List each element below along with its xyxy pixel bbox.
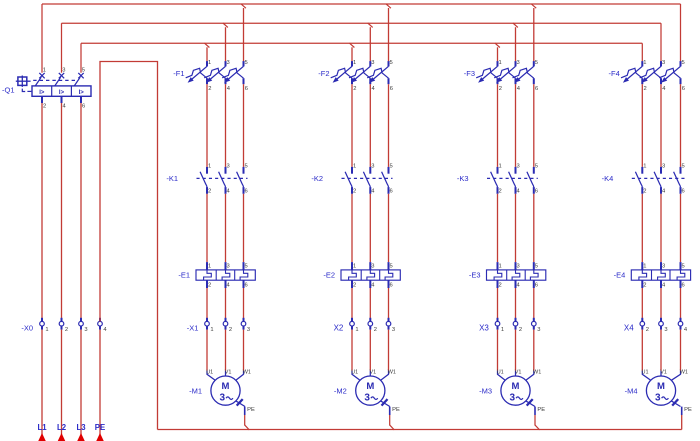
K2 pin 5 <box>390 164 393 170</box>
svg-text:-M2: -M2 <box>334 386 347 395</box>
supply arrow L1 <box>38 433 46 441</box>
wire K2:4 to E2:3 <box>369 194 371 262</box>
svg-text:2: 2 <box>644 86 647 92</box>
wire E1:4 to X1:2 <box>225 288 227 322</box>
svg-text:-E4: -E4 <box>614 271 626 280</box>
M4 lead U1 <box>642 371 650 381</box>
svg-text:2: 2 <box>353 188 356 194</box>
svg-text:2: 2 <box>499 283 502 289</box>
label X3 <box>479 324 489 333</box>
M1 pin V1 <box>225 369 232 375</box>
motor M1 <box>211 376 240 405</box>
svg-text:V1: V1 <box>225 369 232 375</box>
terminal X3:3 <box>532 318 537 330</box>
svg-text:M: M <box>366 381 374 392</box>
Q1 mechanical link (dashed) <box>33 79 76 81</box>
svg-text:3: 3 <box>537 327 540 333</box>
K1 pole contact 5-6 <box>237 167 244 194</box>
svg-text:3: 3 <box>371 263 374 269</box>
svg-text:1: 1 <box>210 327 213 333</box>
F2 pin 4 <box>372 86 376 92</box>
Q1 terminal stub 6 <box>80 96 82 103</box>
X2 pin 2 <box>374 327 377 333</box>
wire bus L2 <box>62 23 662 72</box>
E1 pin 6 <box>245 283 248 289</box>
svg-text:2: 2 <box>353 283 356 289</box>
svg-text:1: 1 <box>353 60 356 66</box>
terminal X2:2 <box>368 318 373 330</box>
wire L2 tap junction at x=370.3 <box>368 23 373 61</box>
svg-text:-X1: -X1 <box>187 324 199 333</box>
K3 pin 3 <box>517 164 520 170</box>
wire K4:6 to E4:5 <box>680 194 682 262</box>
Q1 pin 6 <box>82 103 85 109</box>
M3 lead U1 <box>498 371 506 381</box>
svg-text:2: 2 <box>643 188 646 194</box>
wire E2:4 to X2:2 <box>369 288 371 322</box>
K2 mechanical link (dashed) <box>342 177 393 179</box>
wire F2:2 to K2:1 <box>351 84 353 167</box>
wire X4:4 to M4 <box>680 330 682 371</box>
svg-text:PE: PE <box>684 407 692 413</box>
F3 pin 2 <box>499 86 502 92</box>
svg-text:1: 1 <box>501 327 504 333</box>
wire X2:3 to M2 <box>388 330 390 371</box>
K1 mechanical link (dashed) <box>197 177 248 179</box>
wire X4:3 to M4 <box>660 330 662 371</box>
K3 pole contact 5-6 <box>527 167 534 194</box>
wire L3 tap junction at x=352 <box>349 43 354 61</box>
label -E4 <box>614 271 626 280</box>
E1 pin 4 <box>227 283 231 289</box>
svg-text:1: 1 <box>355 327 358 333</box>
F2 pole 3-4 breaker contact <box>349 61 370 84</box>
wire K4:2 to E4:1 <box>641 194 643 262</box>
K4 pole contact 3-4 <box>654 167 661 194</box>
svg-text:3: 3 <box>364 393 370 404</box>
svg-text:6: 6 <box>682 86 685 92</box>
svg-text:W1: W1 <box>533 369 541 375</box>
svg-text:M: M <box>512 381 520 392</box>
E3 pin 2 <box>499 283 502 289</box>
svg-text:-M4: -M4 <box>625 386 638 395</box>
K1 pole contact 1-2 <box>200 167 207 194</box>
svg-text:2: 2 <box>374 327 377 333</box>
wire X1:2 to M1 <box>225 330 227 371</box>
svg-text:M: M <box>657 381 665 392</box>
K4 mechanical link (dashed) <box>632 177 685 179</box>
Q1 terminal stub 4 <box>61 96 63 103</box>
E2 pin 4 <box>371 283 375 289</box>
K2 pin 4 <box>371 188 375 194</box>
label -X1 <box>187 324 199 333</box>
wire E4:4 to X4:2 <box>660 288 662 322</box>
svg-text:5: 5 <box>535 164 538 170</box>
wire Q1:6 to X0:3 <box>80 103 82 322</box>
wire F4:6 to K4:5 <box>680 84 682 167</box>
wire E2:2 to X2:1 <box>351 288 353 322</box>
E4 heater element 5-6 <box>677 262 685 288</box>
svg-text:1: 1 <box>643 60 646 66</box>
wire bus L1 <box>42 4 681 73</box>
wire F4:2 to K4:1 <box>641 84 643 167</box>
motor M4 <box>646 376 675 405</box>
label -E1 <box>178 271 190 280</box>
svg-text:6: 6 <box>390 283 393 289</box>
E4 heater element 3-4 <box>658 262 666 288</box>
svg-text:2: 2 <box>643 283 646 289</box>
supply arrow L3 <box>77 433 85 441</box>
label -E2 <box>323 271 335 280</box>
svg-text:3: 3 <box>371 60 374 66</box>
Q1 manual operator <box>16 76 31 87</box>
X1 pin 3 <box>247 327 250 333</box>
svg-text:3: 3 <box>662 60 665 66</box>
wire K1:4 to E1:3 <box>225 194 227 262</box>
wire bus L3 <box>81 43 642 72</box>
wire K1:2 to E1:1 <box>206 194 208 262</box>
terminal X4:4 <box>678 318 683 330</box>
terminal X3:1 <box>495 318 500 330</box>
svg-text:3: 3 <box>664 327 667 333</box>
Q1 terminal stub 2 <box>41 96 43 103</box>
K2 pole contact 1-2 <box>345 167 352 194</box>
F3 pin 6 <box>535 86 538 92</box>
wire L1 tap junction at x=533.8 <box>531 4 536 62</box>
terminal X0:1 <box>40 318 45 330</box>
wire X0:3 to supply L3 <box>80 330 82 441</box>
wire F3:2 to K3:1 <box>497 84 499 167</box>
Q1 pin 1 <box>43 67 46 73</box>
wire Q1:4 to X0:2 <box>61 103 63 322</box>
svg-text:-M1: -M1 <box>189 386 202 395</box>
E4 pin 6 <box>682 283 685 289</box>
E1 thermal overload body <box>196 270 255 280</box>
wire K2:2 to E2:1 <box>351 194 353 262</box>
F4 pin 4 <box>662 86 666 92</box>
svg-text:2: 2 <box>353 86 356 92</box>
svg-text:-F1: -F1 <box>173 69 184 78</box>
svg-text:6: 6 <box>535 283 538 289</box>
wire K3:2 to E3:1 <box>497 194 499 262</box>
K3 pole contact 3-4 <box>509 167 516 194</box>
svg-text:5: 5 <box>390 164 393 170</box>
X1 pin 2 <box>229 327 232 333</box>
K3 pole contact 1-2 <box>491 167 498 194</box>
F1 pole 1-2 breaker contact <box>186 61 207 84</box>
label -F4 <box>609 69 620 78</box>
M2 pin U1 <box>351 369 358 375</box>
wire L2 tap junction at x=515.5 <box>513 23 518 61</box>
F4 pin 5 <box>682 60 685 66</box>
E3 pin 1 <box>499 263 502 269</box>
svg-text:3: 3 <box>84 327 87 333</box>
F3 pole 3-4 breaker contact <box>494 61 515 84</box>
svg-text:2: 2 <box>229 327 232 333</box>
E4 pin 4 <box>662 283 666 289</box>
Q1 pin 5 <box>82 67 85 73</box>
F2 pin 3 <box>371 60 374 66</box>
net label L2 <box>57 423 67 432</box>
svg-text:3: 3 <box>517 164 520 170</box>
X0 pin 3 <box>84 327 87 333</box>
E2 pin 5 <box>390 263 393 269</box>
F1 pin 4 <box>227 86 231 92</box>
label -M1 <box>189 386 202 395</box>
wire L2 tap junction at x=225.5 <box>223 23 228 61</box>
M1 lead W1 <box>236 371 244 381</box>
E3 pin 3 <box>517 263 520 269</box>
wire M2 PE to PE rail junction <box>390 415 395 430</box>
wire F1:4 to K1:3 <box>225 84 227 167</box>
Q1 pin 4 <box>63 103 67 109</box>
svg-text:6: 6 <box>245 188 248 194</box>
F4 pin 6 <box>682 86 685 92</box>
supply arrow L2 <box>58 433 66 441</box>
M3 PE label <box>537 407 545 413</box>
wire K3:6 to E3:5 <box>533 194 535 262</box>
K2 pole contact 5-6 <box>382 167 389 194</box>
M1 lead V1 <box>225 371 227 376</box>
svg-text:L2: L2 <box>57 423 67 432</box>
label -Q1 <box>2 86 15 95</box>
E2 pin 1 <box>353 263 356 269</box>
svg-text:1: 1 <box>643 164 646 170</box>
Q1 pin 2 <box>43 103 46 109</box>
wire E3:6 to X3:3 <box>533 288 535 322</box>
wire PE riser <box>100 62 158 430</box>
svg-text:6: 6 <box>390 188 393 194</box>
Q1 pole contact 1-2 <box>35 73 45 86</box>
svg-text:-K3: -K3 <box>457 174 469 183</box>
Q1 overload release box I> <box>32 86 91 96</box>
E4 pin 3 <box>662 263 665 269</box>
net label L1 <box>37 423 47 432</box>
F3 pole 1-2 breaker contact <box>476 61 497 84</box>
svg-text:PE: PE <box>95 423 105 432</box>
svg-text:2: 2 <box>499 188 502 194</box>
label X4 <box>624 324 634 333</box>
K3 pin 2 <box>499 188 502 194</box>
wire X3:1 to M3 <box>497 330 499 371</box>
svg-text:1: 1 <box>208 60 211 66</box>
K2 pin 1 <box>353 164 356 170</box>
svg-text:5: 5 <box>82 67 85 73</box>
svg-text:-F2: -F2 <box>318 69 329 78</box>
svg-text:5: 5 <box>682 164 685 170</box>
svg-text:3: 3 <box>510 393 516 404</box>
svg-text:PE: PE <box>247 407 255 413</box>
label -F1 <box>173 69 184 78</box>
label -F3 <box>464 69 475 78</box>
M4 PE label <box>684 407 692 413</box>
E3 pin 4 <box>517 283 521 289</box>
svg-text:-E2: -E2 <box>323 271 335 280</box>
F4 pole 1-2 breaker contact <box>621 61 642 84</box>
terminal X4:3 <box>659 318 664 330</box>
E2 heater element 5-6 <box>385 262 393 288</box>
svg-text:I>: I> <box>39 90 45 96</box>
wire K2:6 to E2:5 <box>388 194 390 262</box>
wire X2:1 to M2 <box>351 330 353 371</box>
svg-text:L1: L1 <box>37 423 47 432</box>
F4 pole 3-4 breaker contact <box>640 61 661 84</box>
wire X1:3 to M1 <box>243 330 245 371</box>
E1 heater element 1-2 <box>204 262 212 288</box>
wire M1 PE to PE rail junction <box>245 415 250 430</box>
svg-text:-X0: -X0 <box>21 323 33 332</box>
svg-text:U1: U1 <box>642 369 649 375</box>
E3 heater element 3-4 <box>512 262 520 288</box>
K3 mechanical link (dashed) <box>487 177 538 179</box>
svg-text:5: 5 <box>682 60 685 66</box>
E4 pin 2 <box>643 283 646 289</box>
svg-text:2: 2 <box>519 327 522 333</box>
svg-text:1: 1 <box>353 164 356 170</box>
M3 lead W1 <box>526 371 534 381</box>
label X2 <box>334 324 344 333</box>
X0 pin 2 <box>65 327 68 333</box>
svg-text:3: 3 <box>517 60 520 66</box>
M1 pin W1 <box>243 369 251 375</box>
M4 pin V1 <box>660 369 667 375</box>
K3 pin 4 <box>517 188 521 194</box>
wire Q1:2 to X0:1 <box>41 103 43 322</box>
terminal X2:3 <box>386 318 391 330</box>
svg-text:U1: U1 <box>497 369 504 375</box>
Q1 trip linkage <box>22 89 31 92</box>
K2 pin 3 <box>371 164 374 170</box>
net label PE <box>95 423 105 432</box>
svg-text:2: 2 <box>208 188 211 194</box>
M2 PE brush connection <box>381 399 390 415</box>
X4 pin 3 <box>664 327 667 333</box>
svg-text:6: 6 <box>245 86 248 92</box>
M2 lead V1 <box>369 371 371 376</box>
K4 pin 2 <box>643 188 646 194</box>
K1 pin 3 <box>227 164 230 170</box>
wire X0:1 to supply L1 <box>41 330 43 441</box>
E2 pin 3 <box>371 263 374 269</box>
terminal X3:2 <box>513 318 518 330</box>
svg-text:I>: I> <box>59 90 65 96</box>
X0 pin 4 <box>103 327 107 333</box>
E4 pin 1 <box>643 263 646 269</box>
svg-text:6: 6 <box>682 283 685 289</box>
K4 pin 1 <box>643 164 646 170</box>
E3 pin 5 <box>535 263 538 269</box>
wire E1:6 to X1:3 <box>243 288 245 322</box>
F2 pole 5-6 breaker contact <box>367 61 388 84</box>
svg-text:W1: W1 <box>243 369 251 375</box>
E1 heater element 3-4 <box>222 262 230 288</box>
M1 pin U1 <box>206 369 213 375</box>
svg-text:3: 3 <box>662 263 665 269</box>
label -M3 <box>479 386 492 395</box>
label -K2 <box>311 174 323 183</box>
svg-text:V1: V1 <box>515 369 522 375</box>
svg-text:-K2: -K2 <box>311 174 323 183</box>
F2 pole 1-2 breaker contact <box>331 61 352 84</box>
svg-text:-E3: -E3 <box>469 271 481 280</box>
F2 pin 5 <box>390 60 393 66</box>
wire F1:6 to K1:5 <box>243 84 245 167</box>
F3 pole 5-6 breaker contact <box>513 61 534 84</box>
X2 pin 1 <box>355 327 358 333</box>
M2 pin V1 <box>370 369 377 375</box>
K2 pole contact 3-4 <box>363 167 370 194</box>
wire X2:2 to M2 <box>369 330 371 371</box>
label -F2 <box>318 69 329 78</box>
F3 pin 5 <box>535 60 538 66</box>
wire X0:2 to supply L2 <box>61 330 63 441</box>
svg-text:3: 3 <box>227 60 230 66</box>
F1 pin 1 <box>208 60 211 66</box>
wire F1:2 to K1:1 <box>206 84 208 167</box>
label -K1 <box>166 174 178 183</box>
F4 pole 5-6 breaker contact <box>659 61 680 84</box>
svg-text:6: 6 <box>82 103 85 109</box>
svg-text:V1: V1 <box>660 369 667 375</box>
M3 PE brush connection <box>526 399 535 415</box>
label -X0 <box>21 323 33 332</box>
E2 pin 6 <box>390 283 393 289</box>
K3 pin 6 <box>535 188 538 194</box>
svg-text:3: 3 <box>517 263 520 269</box>
svg-text:1: 1 <box>643 263 646 269</box>
K1 pin 5 <box>245 164 248 170</box>
K1 pin 6 <box>245 188 248 194</box>
svg-text:6: 6 <box>245 283 248 289</box>
svg-text:3: 3 <box>247 327 250 333</box>
F3 pin 4 <box>517 86 521 92</box>
M4 lead W1 <box>671 371 680 381</box>
M3 pin W1 <box>533 369 541 375</box>
F2 pin 2 <box>353 86 356 92</box>
svg-text:5: 5 <box>535 60 538 66</box>
K3 pin 5 <box>535 164 538 170</box>
E3 heater element 1-2 <box>494 262 502 288</box>
E4 heater element 1-2 <box>639 262 647 288</box>
svg-text:3: 3 <box>227 263 230 269</box>
K4 pole contact 5-6 <box>674 167 681 194</box>
wire E3:2 to X3:1 <box>497 288 499 322</box>
F4 pin 2 <box>644 86 647 92</box>
svg-text:2: 2 <box>208 283 211 289</box>
F1 pin 6 <box>245 86 248 92</box>
svg-text:U1: U1 <box>351 369 358 375</box>
svg-text:3: 3 <box>662 164 665 170</box>
wire F2:4 to K2:3 <box>369 84 371 167</box>
svg-text:5: 5 <box>245 60 248 66</box>
K1 pin 1 <box>208 164 211 170</box>
F4 pin 1 <box>643 60 646 66</box>
svg-text:5: 5 <box>245 263 248 269</box>
wire X3:3 to M3 <box>533 330 535 371</box>
wire L3 tap junction at x=207 <box>204 43 209 61</box>
svg-text:V1: V1 <box>370 369 377 375</box>
E1 pin 2 <box>208 283 211 289</box>
Q1 pole contact 5-6 <box>74 73 84 86</box>
svg-text:1: 1 <box>208 263 211 269</box>
E2 heater element 1-2 <box>349 262 357 288</box>
X1 pin 1 <box>210 327 213 333</box>
F1 pole 3-4 breaker contact <box>204 61 225 84</box>
E2 pin 2 <box>353 283 356 289</box>
label -M4 <box>625 386 638 395</box>
label -K4 <box>602 174 614 183</box>
svg-text:W1: W1 <box>388 369 396 375</box>
